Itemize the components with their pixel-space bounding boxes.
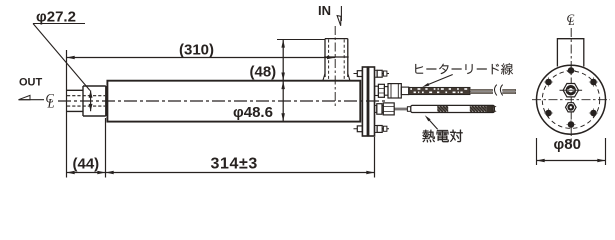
- main centerline: [58, 100, 388, 102]
- heater gland fittings: [375, 86, 379, 95]
- dimension (44): [67, 172, 106, 174]
- svg-text:OUT: OUT: [19, 76, 43, 88]
- leader thermocouple: [427, 118, 438, 130]
- IN pipe: [324, 39, 349, 77]
- IN pipe centerline: [334, 26, 336, 108]
- extension line coupling end: [105, 118, 107, 178]
- heater braided lead: [409, 87, 470, 94]
- svg-text:(310): (310): [179, 41, 214, 58]
- dimension (310): [67, 57, 336, 59]
- sheath tip: [492, 106, 494, 112]
- dimension (48) vertical: [282, 40, 284, 122]
- thermocouple front (hex): [566, 103, 577, 112]
- dimension phi80: [537, 138, 606, 165]
- IN pipe hidden bore: [329, 40, 345, 81]
- main cylinder body: [107, 81, 360, 122]
- label heater lead wire (JP): [415, 63, 513, 75]
- leader phi27.2: [33, 24, 90, 91]
- outlet pipe: [67, 90, 83, 111]
- bolt circle: [542, 71, 599, 128]
- bolt holes: [568, 67, 575, 74]
- sheath hatched bands: [431, 106, 455, 112]
- front vertical centerline: [570, 28, 572, 146]
- extension line left: [66, 50, 68, 178]
- flange bolt bottom: [354, 128, 390, 130]
- flange bolt top: [354, 73, 390, 75]
- outlet pipe hidden bore: [67, 96, 105, 106]
- svg-text:φ80: φ80: [554, 136, 581, 153]
- extension line from pipe top: [277, 39, 325, 41]
- svg-text:φ27.2: φ27.2: [36, 9, 76, 26]
- extension line flange face: [374, 137, 376, 178]
- thermocouple gland fittings: [375, 105, 377, 112]
- thermocouple rod: [394, 108, 407, 110]
- label thermocouple (JP): [423, 130, 463, 143]
- svg-text:(48): (48): [250, 64, 277, 81]
- front view IN pipe: [557, 39, 583, 67]
- front view flange circle: [537, 65, 606, 134]
- front horizontal centerline: [532, 99, 610, 101]
- svg-text:314±3: 314±3: [211, 156, 258, 173]
- coupling step: [83, 86, 106, 116]
- svg-text:φ48.6: φ48.6: [233, 104, 273, 121]
- svg-text:L: L: [567, 16, 574, 28]
- leader heater lead: [426, 75, 453, 86]
- twin lead wire: [470, 89, 493, 91]
- IN pipe weld fillet: [323, 74, 350, 81]
- thermocouple sheath: [411, 105, 495, 112]
- svg-text:IN: IN: [318, 3, 331, 18]
- wire break symbol: [495, 85, 503, 96]
- svg-text:(44): (44): [73, 155, 100, 172]
- dimension 314±3: [106, 172, 375, 174]
- pipe OD dimension arrows (phi 27.2): [90, 90, 92, 111]
- IN flow arrow: [340, 6, 342, 21]
- lead wire after break: [503, 89, 516, 91]
- flange plates: [362, 67, 367, 136]
- svg-text:L: L: [47, 97, 55, 111]
- heater terminal front (hex nut): [560, 89, 583, 91]
- OUT flow arrow: [19, 99, 45, 101]
